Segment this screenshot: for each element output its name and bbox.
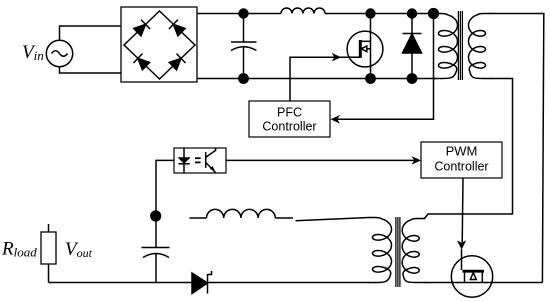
wire PWM gate drive [461,178,464,244]
wire top rail bridge to inductor [197,13,281,15]
junction dot D5 top [407,8,417,18]
arrow into PWM [412,156,422,165]
junction dot D5 bottom [407,73,418,84]
transformer T2 primary winding [368,218,392,283]
transformer T2 secondary winding [402,219,425,283]
capacitor C2 (output cap) [142,248,170,283]
wire opto to PWM [226,159,417,161]
AC source Vin [46,40,72,66]
wire opto left lead down [156,160,174,211]
bridge diode D3 (upper-right edge, points to top corner) [169,20,186,37]
wire node to capacitor [155,221,157,248]
inductor L1 [281,8,325,14]
wire slanted feed to T2 [296,218,370,221]
bridge diode D1 (lower-left edge, points to left corner) [133,54,150,71]
arrow PWM gate drive [457,240,466,249]
resistor Rload [41,224,56,283]
wire bottom rail T2 to right corner [424,282,542,284]
wire bottom rail left [49,282,193,284]
junction dot C1 top [238,8,248,18]
diode D6 (output rectifier) [192,271,212,294]
transformer T1 primary winding [434,14,458,79]
bridge rectifier box [121,7,197,82]
junction dot C1 bottom [238,73,249,84]
capacitor C1 [231,14,257,79]
transformer T1 secondary winding [469,14,492,79]
PFC controller U1 [249,101,330,137]
inductor L2 (output filter) [190,209,294,218]
optocoupler U3 [174,148,226,173]
wire PFC gate drive [290,57,360,101]
svg-text:Controller: Controller [434,159,488,173]
transformer T1 core [458,11,462,80]
junction dot T1 sense node [428,8,439,19]
svg-text:PWM: PWM [446,144,478,159]
arrow PFC gate drive [332,53,342,62]
svg-text:PFC: PFC [277,106,302,120]
wire T1 secondary top to right edge [490,14,544,283]
bridge diamond [124,11,195,79]
diode D5 (boost diode) [403,14,422,79]
wire top rail inductor to T1 [325,13,435,15]
wire bottom rail diode to T2 [208,282,370,284]
junction dot Q1 drain [365,8,375,18]
wire PFC feedback sense [335,14,434,120]
wire Vin top to bridge [60,26,122,40]
MOSFET Q1 [347,14,383,79]
junction dot Q1 source [365,73,376,84]
arrow PFC feedback [331,115,341,124]
MOSFET Q2 [451,249,492,297]
junction dot output node [150,210,161,221]
wire T1 secondary bottom to mid vertical [423,79,513,219]
bridge diode D2 (upper-left edge, points to top corner) [133,20,150,37]
bridge diode D4 (lower-right edge, points to right corner) [168,54,185,71]
svg-text:Controller: Controller [262,119,316,133]
PWM controller U2 [421,142,502,178]
transformer T2 core [396,217,400,287]
wire Vin bottom to bridge [60,67,122,73]
wire bottom rail bridge to T1 [197,78,436,80]
